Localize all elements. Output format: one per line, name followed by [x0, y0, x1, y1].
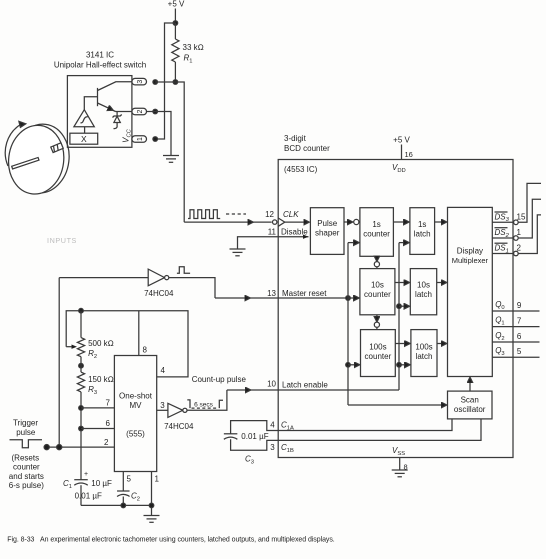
svg-text:3: 3: [137, 80, 144, 84]
svg-text:CLK: CLK: [283, 210, 299, 219]
wire DS3 route up and out: [518, 183, 541, 222]
wire pin 5 down through C2: [122, 472, 124, 492]
node master reset junction dot: [346, 296, 351, 301]
disc magnet on rim: [51, 143, 63, 153]
svg-text:pulse: pulse: [16, 428, 36, 437]
svg-text:74HC04: 74HC04: [144, 289, 174, 298]
capacitor C3: [224, 433, 238, 435]
ground for 555: [144, 515, 160, 517]
svg-text:6: 6: [106, 419, 111, 428]
svg-text:(555): (555): [126, 430, 145, 439]
disc rotation arrow: [5, 125, 20, 167]
svg-text:2: 2: [137, 109, 144, 113]
label DS2 with overline: [495, 228, 510, 239]
100s latch box: [411, 330, 437, 377]
svg-text:100s: 100s: [369, 343, 386, 352]
wire C1 bottom to rail: [80, 485, 82, 505]
wire 10s latch to display multiplexer: [437, 282, 446, 284]
svg-text:MV: MV: [130, 401, 143, 410]
wire Q3 output: [492, 356, 539, 358]
svg-text:and starts: and starts: [9, 472, 44, 481]
svg-text:15: 15: [517, 212, 526, 221]
wire 1s counter to 1s latch: [393, 221, 408, 223]
svg-text:0.01 µF: 0.01 µF: [75, 492, 102, 501]
svg-text:DS3: DS3: [495, 212, 510, 223]
pin 3 capsule of U1: [132, 78, 147, 85]
waveform trigger negative pulse: [10, 440, 43, 448]
wire master reset line from inverter to 10s counter: [215, 297, 250, 299]
node pin 7 junction dot: [79, 406, 84, 411]
svg-text:0.01 µF: 0.01 µF: [241, 432, 268, 441]
wire pin 3 to node B and to CLK drop: [155, 82, 184, 222]
node trigger junction dot: [57, 445, 62, 450]
svg-text:7: 7: [106, 399, 111, 408]
ground for hall pin 2: [163, 155, 179, 157]
wire Q1 output: [492, 326, 539, 328]
wire pin 7: [81, 407, 114, 409]
wire C1A internal to scan oscillator: [278, 419, 452, 431]
wire amp base to X box: [84, 127, 86, 133]
svg-text:VDD: VDD: [392, 163, 406, 174]
wire branch to 10s latch: [399, 305, 409, 307]
svg-text:counter: counter: [13, 463, 40, 472]
svg-text:+5 V: +5 V: [168, 0, 185, 9]
svg-text:10 µF: 10 µF: [91, 479, 112, 488]
svg-text:Disable: Disable: [281, 227, 308, 236]
svg-text:BCD counter: BCD counter: [284, 144, 330, 153]
1s latch box: [410, 208, 435, 255]
svg-text:Display: Display: [457, 247, 483, 256]
svg-text:8: 8: [143, 346, 148, 355]
op-amp inverter U4 74HC04 triangle: [168, 403, 183, 417]
hall-effect switch U1 outline box: [67, 76, 131, 148]
wire C3 bottom loop to pin 3: [231, 439, 279, 450]
svg-text:latch: latch: [416, 352, 433, 361]
svg-text:1: 1: [137, 137, 144, 141]
waveform single pulse at inverter output: [177, 267, 190, 274]
pulse shaper box: [310, 208, 344, 255]
wire latch enable branch to 1s latch: [399, 242, 408, 244]
wire pulse shaper to 1s counter with carry circle: [344, 221, 352, 223]
svg-text:6 secs: 6 secs: [194, 401, 214, 408]
resistor R3 zigzag: [77, 372, 84, 392]
wire branch to 100s latch: [399, 364, 409, 366]
wire carry 1s counter to 10s counter with circle: [376, 256, 378, 260]
wire branch to 100s counter reset: [348, 364, 359, 366]
capacitor C2: [117, 490, 130, 492]
svg-text:Multiplexer: Multiplexer: [452, 256, 489, 265]
wire 100s counter to 100s latch: [395, 343, 409, 345]
svg-text:Q2: Q2: [495, 331, 504, 342]
open circle DS2 pin: [514, 236, 519, 241]
svg-text:9: 9: [517, 301, 522, 310]
svg-text:3141 IC: 3141 IC: [86, 51, 114, 60]
svg-text:3: 3: [160, 401, 165, 410]
svg-text:latch: latch: [414, 230, 431, 239]
svg-text:1s: 1s: [418, 220, 426, 229]
open circle DS3 pin: [514, 220, 519, 225]
wire +5V down to node A: [174, 9, 176, 24]
svg-text:10s: 10s: [371, 281, 384, 290]
svg-text:2: 2: [104, 438, 109, 447]
svg-text:DS2: DS2: [495, 228, 510, 239]
svg-text:X: X: [81, 134, 87, 144]
svg-text:Pulse: Pulse: [317, 219, 338, 228]
pin 1 terminal dot: [153, 137, 158, 142]
scan oscillator box: [448, 391, 493, 419]
open circle DS1 pin: [514, 251, 519, 256]
svg-text:counter: counter: [363, 230, 390, 239]
transistor Q1 base bar: [97, 88, 99, 106]
wire inverter1 output to master reset pin: [169, 278, 215, 298]
wire master reset down to 100s counter and scan feed: [347, 298, 349, 405]
rotating disc front face: [5, 122, 68, 197]
wire Vcc feed from node A to hall pin 1: [156, 23, 175, 139]
svg-text:latch: latch: [415, 290, 432, 299]
pin 1 capsule of U1: [132, 136, 147, 143]
resistor R2 zigzag: [77, 338, 84, 357]
waveform 6 secs annotation: [187, 400, 223, 408]
wire 555 pin 3 output: [157, 409, 168, 411]
wire node A to resistor R1: [174, 23, 176, 39]
hall element X box: [70, 133, 98, 144]
svg-text:C1B: C1B: [281, 443, 294, 454]
node top rail junction dot: [79, 308, 84, 313]
svg-text:oscillator: oscillator: [454, 405, 486, 414]
wire pin 1 down to ground: [151, 472, 153, 516]
svg-text:10s: 10s: [417, 281, 430, 290]
svg-text:4: 4: [270, 421, 275, 430]
svg-text:R3: R3: [88, 385, 97, 396]
svg-text:33 kΩ: 33 kΩ: [183, 43, 204, 52]
svg-text:C1A: C1A: [281, 421, 294, 432]
node pin1 rail junction dot: [149, 503, 154, 508]
svg-text:10: 10: [267, 380, 276, 389]
svg-text:5: 5: [517, 347, 522, 356]
display multiplexer box: [448, 207, 493, 376]
svg-text:6-s pulse): 6-s pulse): [9, 481, 44, 490]
wire top rail R2 arrow to pins 8 and 4: [66, 311, 188, 377]
wire trigger line to pin 2: [47, 446, 115, 448]
wire trigger vertical to inverter1: [58, 278, 60, 448]
svg-text:4: 4: [161, 366, 166, 375]
wire 100s latch to display multiplexer: [437, 343, 446, 345]
svg-text:1: 1: [155, 475, 160, 484]
svg-text:VSS: VSS: [392, 446, 405, 457]
label DS1 with overline: [495, 243, 509, 254]
svg-text:counter: counter: [364, 290, 391, 299]
wire R2 top lead: [80, 311, 82, 338]
svg-text:11: 11: [268, 227, 277, 236]
wire inverter2 output to latch enable: [187, 390, 227, 410]
svg-text:Unipolar Hall-effect switch: Unipolar Hall-effect switch: [54, 61, 146, 70]
svg-text:Q3: Q3: [495, 346, 504, 357]
wire VSS pin 8 ground stem: [399, 458, 401, 471]
wire master reset vertical distribution: [347, 243, 349, 298]
wire chevron to pulse shaper: [285, 221, 309, 223]
svg-text:Trigger: Trigger: [13, 419, 38, 428]
open circle at clock entry: [273, 220, 277, 224]
svg-text:VCC: VCC: [122, 128, 133, 143]
svg-text:R2: R2: [88, 349, 97, 360]
svg-text:Fig. 8-33 An experimental el: Fig. 8-33 An experimental electronic tac…: [7, 537, 334, 544]
node trigger terminal dot: [44, 445, 49, 450]
pin 2 capsule of U1: [132, 108, 147, 115]
svg-text:1s: 1s: [372, 220, 380, 229]
svg-text:C1: C1: [63, 479, 72, 490]
svg-text:One-shot: One-shot: [119, 392, 153, 401]
svg-text:16: 16: [405, 150, 413, 159]
svg-text:Q1: Q1: [495, 316, 504, 327]
zener diode clamp inside U1: [116, 112, 118, 117]
svg-text:counter: counter: [365, 352, 392, 361]
svg-text:DS1: DS1: [495, 244, 509, 255]
svg-text:INPUTS: INPUTS: [47, 236, 77, 245]
svg-text:13: 13: [267, 289, 276, 298]
svg-text:3: 3: [270, 443, 275, 452]
100s counter box: [361, 330, 396, 377]
wire CLK from node B drop to 4553 clock input: [184, 221, 252, 223]
node junction dot between R2 and R3: [79, 363, 84, 368]
node C2 rail junction dot: [121, 503, 126, 508]
op-amp inverter U3 74HC04 triangle: [148, 269, 164, 286]
wire amp apex to transistor base: [84, 97, 97, 110]
wire master reset branch to 1s counter: [348, 242, 358, 244]
rotating disc back rim: [10, 121, 73, 196]
capacitor C1: [74, 479, 88, 481]
transistor Q1 collector to pin 3: [98, 82, 132, 91]
svg-text:Scan: Scan: [461, 396, 479, 405]
svg-text:Latch enable: Latch enable: [282, 381, 328, 390]
wire scan oscillator feed: [348, 404, 446, 406]
wire DS2 output: [492, 237, 513, 239]
10s latch box: [410, 269, 436, 315]
wire 1s latch to display multiplexer: [435, 221, 446, 223]
svg-text:3-digit: 3-digit: [284, 134, 307, 143]
node junction dot at 100s latch enable: [397, 363, 402, 368]
svg-text:500 kΩ: 500 kΩ: [88, 339, 114, 348]
wire carry 10s counter to 100s counter with circle: [376, 315, 378, 321]
svg-text:R1: R1: [184, 54, 193, 65]
svg-text:C3: C3: [245, 455, 254, 466]
timer 555 box: [114, 356, 156, 472]
ground for disable input: [238, 237, 309, 249]
svg-text:5: 5: [127, 475, 132, 484]
svg-text:(Resets: (Resets: [12, 454, 40, 463]
node junction dot at 100s counter reset: [346, 363, 351, 368]
svg-text:100s: 100s: [415, 343, 432, 352]
wire DS1 route up and out: [518, 215, 541, 254]
svg-text:150 kΩ: 150 kΩ: [88, 375, 114, 384]
pin 3 terminal dot: [153, 80, 158, 85]
svg-text:Count-up pulse: Count-up pulse: [192, 375, 247, 384]
node A junction dot: [173, 21, 178, 26]
clock input chevron on box edge: [278, 218, 285, 226]
wire DS1 output: [492, 253, 513, 255]
node pin 6 junction dot: [79, 426, 84, 431]
svg-text:+5 V: +5 V: [393, 136, 410, 145]
wire pin 2 to ground: [147, 112, 172, 156]
wire bottom rail: [81, 504, 152, 506]
node B junction dot: [173, 80, 178, 85]
transistor Q1 emitter with arrow to pin 2 line: [98, 103, 113, 110]
svg-text:7: 7: [517, 317, 522, 326]
wire R3 down to C1: [80, 392, 82, 480]
wire 10s counter to 10s latch: [395, 282, 409, 284]
wire latch enable vertical distribution: [398, 243, 400, 390]
wire Q0 output: [492, 310, 539, 312]
wire DS3 output: [492, 221, 513, 223]
wire pin 8 drop: [138, 311, 140, 356]
wire pin 6: [81, 428, 114, 430]
svg-text:Master reset: Master reset: [282, 289, 327, 298]
pin 2 terminal dot: [153, 109, 158, 114]
wire DS2 route up and out: [518, 199, 541, 238]
svg-text:6: 6: [517, 332, 522, 341]
svg-text:C2: C2: [131, 492, 140, 503]
wire inverter1 input: [59, 277, 148, 279]
waveform dashes: [226, 213, 246, 215]
svg-text:12: 12: [265, 210, 274, 219]
waveform clock pulse train: [188, 210, 220, 219]
wire Q2 output: [492, 341, 539, 343]
1s counter box: [360, 208, 394, 257]
disc slot bar: [12, 157, 39, 168]
wire C3 top loop to pin 4: [231, 421, 279, 434]
IC U2 4553 outer box: [278, 160, 513, 458]
wire C1B internal to scan oscillator: [278, 419, 481, 441]
wire scan oscillator to multiplexer: [469, 378, 471, 391]
svg-text:(4553 IC): (4553 IC): [284, 165, 318, 174]
svg-text:Q0: Q0: [495, 300, 504, 311]
amplifier triangle with hysteresis inside U1: [74, 110, 94, 127]
resistor R1 zigzag: [172, 39, 179, 62]
svg-text:74HC04: 74HC04: [164, 422, 194, 431]
node junction dot at 10s latch enable: [397, 304, 402, 309]
10s counter box: [360, 269, 395, 315]
svg-text:shaper: shaper: [315, 229, 340, 238]
wire latch enable from inverter to distribution: [227, 389, 250, 391]
ground VSS: [392, 469, 408, 471]
svg-text:+: +: [84, 471, 88, 478]
label DS3 with overline: [495, 212, 510, 223]
wire R1 to node B: [174, 62, 176, 82]
wire +5V to VDD pin 16: [401, 145, 403, 160]
